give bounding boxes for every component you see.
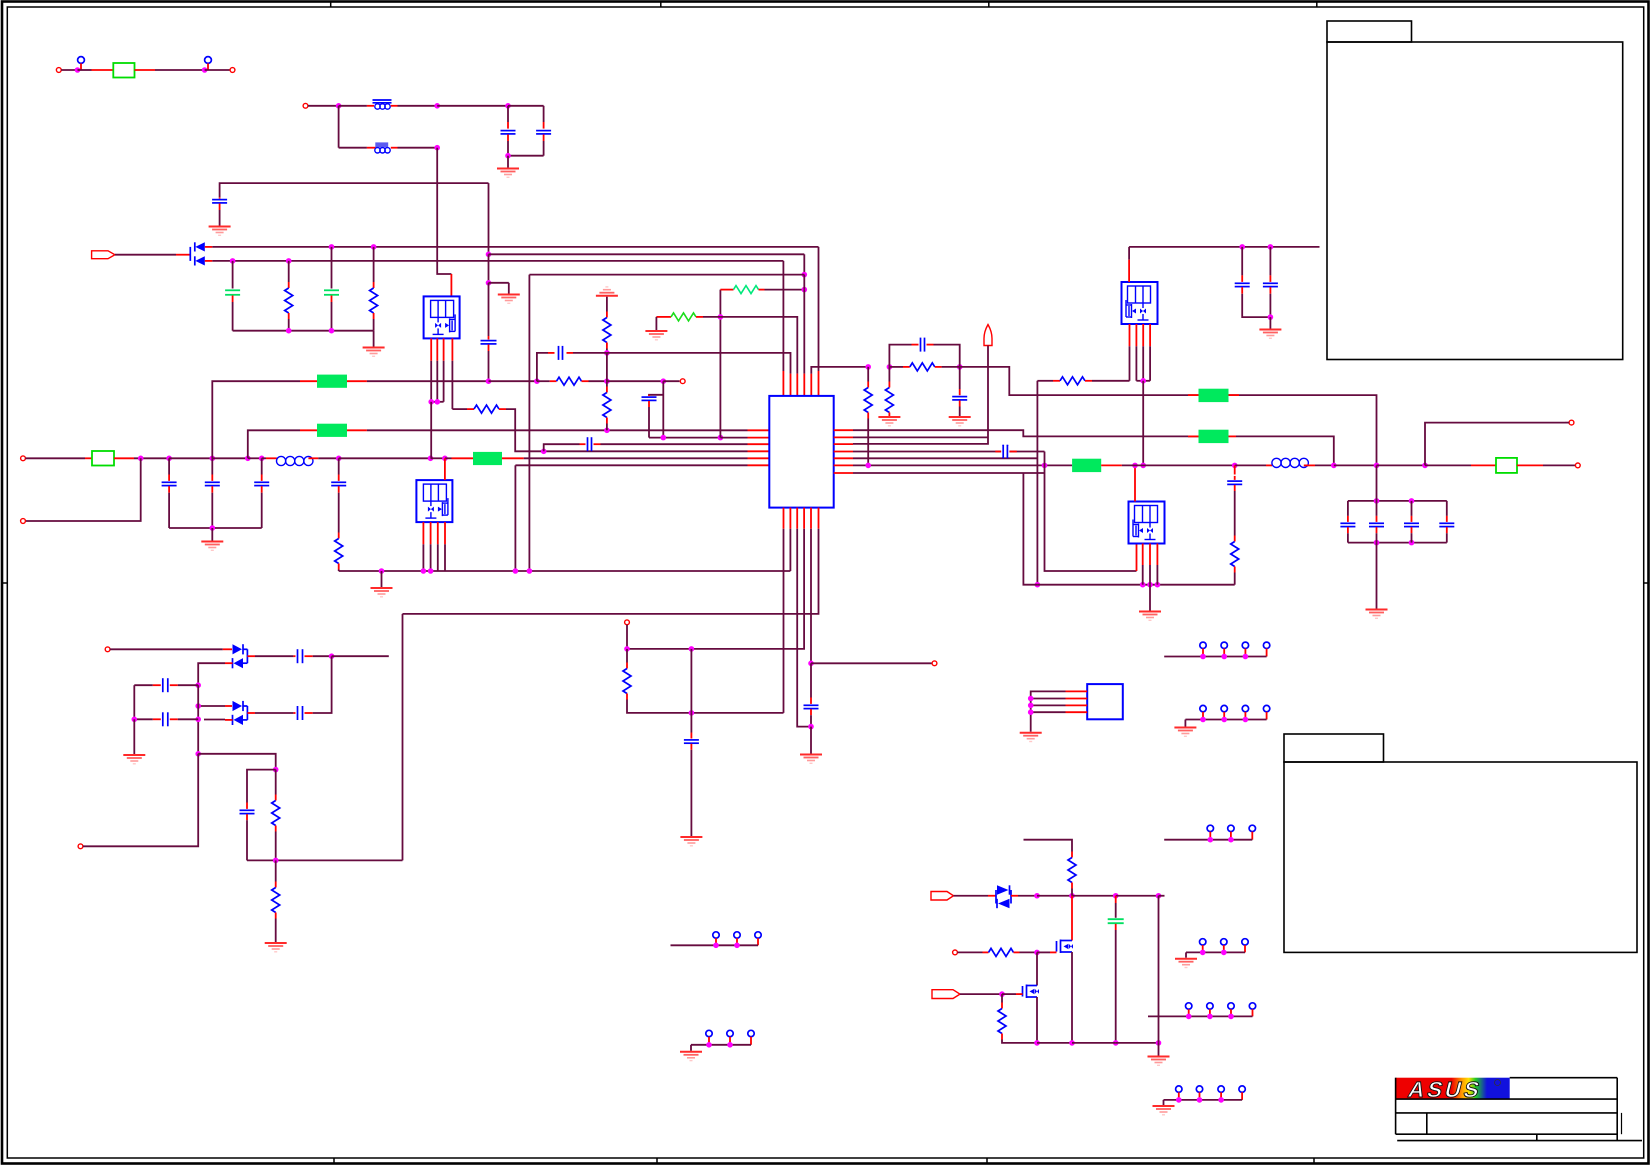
node junction <box>689 646 695 652</box>
pin1B wire <box>783 508 785 529</box>
wire to IC pin1L <box>347 429 367 431</box>
wire <box>1235 464 1266 466</box>
test point TP1 <box>78 57 85 64</box>
wire <box>954 895 989 897</box>
capacitor C18 <box>1241 247 1243 276</box>
wire phase vertical <box>1142 381 1144 466</box>
capacitor C17 to ground <box>959 367 961 389</box>
node junction <box>259 456 265 462</box>
ground <box>1184 720 1186 727</box>
node junction <box>329 328 335 334</box>
wire <box>212 457 248 459</box>
node junction <box>513 568 519 574</box>
capacitor C26 <box>134 684 153 686</box>
node junction <box>273 767 279 773</box>
node junction <box>957 364 963 370</box>
ground <box>498 294 520 296</box>
resistor R12 to ground <box>867 367 869 382</box>
wire <box>80 63 82 70</box>
header J7 <box>1186 1003 1192 1009</box>
connector terminal <box>105 647 110 652</box>
pin stub top <box>444 458 446 480</box>
node junction <box>1069 1040 1075 1046</box>
wire <box>391 105 398 107</box>
ground <box>1020 732 1042 734</box>
resistor R4 <box>557 377 582 385</box>
note box top-right body <box>1327 42 1623 360</box>
fuse F2 <box>92 451 114 466</box>
node junction <box>195 682 201 688</box>
node junction <box>808 724 814 730</box>
wire <box>332 655 389 657</box>
wire K2 row 2 <box>225 719 233 721</box>
connector terminal <box>21 519 26 524</box>
wire <box>1158 896 1160 1043</box>
border tick left middle <box>2 582 7 584</box>
wire <box>960 993 1002 995</box>
ground <box>1185 952 1187 957</box>
wire flame to pin3R <box>853 346 988 444</box>
wire <box>606 353 608 381</box>
ferrite bead FB1 <box>317 375 347 388</box>
resistor R9 (green) <box>655 316 657 318</box>
ferrite bead FB3 <box>473 452 502 465</box>
wire <box>537 353 548 381</box>
node junction <box>336 103 342 109</box>
node junction <box>428 399 434 405</box>
port flag EN2 <box>932 990 960 999</box>
node junction <box>604 428 610 434</box>
node junction <box>230 258 236 264</box>
node junction <box>1156 1040 1162 1046</box>
node junction <box>1422 463 1428 469</box>
wire <box>391 147 398 149</box>
wire <box>133 685 135 719</box>
wire phase feed <box>960 367 1377 466</box>
wire to source rail <box>338 570 340 572</box>
node junction <box>1069 893 1075 899</box>
note box bottom-right body <box>1284 762 1637 952</box>
border tick bottom 3 <box>986 1158 988 1164</box>
node junction <box>1155 582 1161 588</box>
ground <box>878 416 900 418</box>
pin4R wire <box>834 451 853 453</box>
node junction <box>486 280 492 286</box>
ground <box>949 416 971 418</box>
wire to ground <box>1376 543 1378 609</box>
wire <box>508 155 544 157</box>
ground <box>690 1045 692 1051</box>
pin2B source rail end <box>789 508 791 529</box>
wire <box>1377 464 1426 466</box>
wire <box>1037 1042 1072 1044</box>
pin stubs below Q1 <box>430 338 432 360</box>
border tick bottom 4 <box>1313 1158 1315 1164</box>
resistor R3 <box>338 533 340 539</box>
node junction <box>371 244 377 250</box>
node junction <box>245 456 251 462</box>
node junction <box>1374 463 1380 469</box>
node junction <box>329 653 335 659</box>
capacitor C25 <box>297 649 299 663</box>
green capacitor C30 <box>1115 896 1117 903</box>
node junction <box>1035 582 1041 588</box>
node junction <box>604 378 610 384</box>
capacitor C21 <box>1376 501 1378 516</box>
gate rail vertical <box>1036 381 1038 585</box>
mosfet block Q2 (lower-left) <box>416 480 452 522</box>
ground <box>1163 1100 1165 1105</box>
capacitor C7 <box>168 458 170 474</box>
node junction <box>1042 463 1048 469</box>
wire top branch to IC pin <box>212 246 818 248</box>
capacitor C9 <box>261 458 263 474</box>
node junction <box>434 145 440 151</box>
capacitor C23 <box>1446 501 1448 516</box>
node junction <box>1034 950 1040 956</box>
inductor L1 <box>277 456 286 465</box>
wire to RC branch <box>198 754 276 770</box>
node junction <box>865 463 871 469</box>
node junction <box>273 858 279 864</box>
capacitor C1 <box>507 106 509 122</box>
resistor R10 <box>626 649 628 663</box>
capacitor C4 <box>481 340 497 342</box>
node junction <box>421 568 427 574</box>
wire gate 2 <box>1002 993 1016 995</box>
mosfet Q6 <box>1022 986 1024 997</box>
wire pin4R chain <box>1045 452 1137 572</box>
node junction <box>1140 463 1146 469</box>
capacitor C28 <box>134 718 153 720</box>
connector terminal <box>680 379 685 384</box>
wire to terminal <box>811 662 932 664</box>
wire <box>508 105 544 107</box>
capacitor C2 <box>543 106 545 122</box>
capacitor C15 <box>810 663 812 697</box>
ground <box>363 347 385 349</box>
ground <box>655 317 657 330</box>
cap bypass loop C16 <box>889 345 911 367</box>
wire <box>339 457 431 459</box>
node junction <box>138 456 144 462</box>
capacitor C14 <box>684 739 699 741</box>
pin stubs below Q3 <box>1129 324 1131 346</box>
capacitor C27 <box>297 706 299 720</box>
node junction <box>1409 540 1415 546</box>
resistor R2 <box>373 247 375 282</box>
ground (inverted) <box>605 286 608 288</box>
capacitor C11 <box>587 437 589 451</box>
pin stubs below Q4 <box>1142 544 1144 566</box>
ground stub right <box>489 282 509 284</box>
node junction <box>1268 314 1274 320</box>
header J5 <box>1207 825 1213 831</box>
header J9 <box>713 932 719 938</box>
ground <box>1269 317 1271 328</box>
ferrite bead FB4 (right top) <box>1199 389 1229 402</box>
wire <box>537 380 550 382</box>
node junction <box>286 328 292 334</box>
green capacitor C5 <box>232 261 234 289</box>
node junction <box>195 751 201 757</box>
header J4 <box>1200 705 1206 711</box>
node junction <box>505 153 511 159</box>
connector terminal <box>303 103 308 108</box>
wire <box>347 380 367 382</box>
node junction <box>1140 378 1146 384</box>
node junction <box>1374 540 1380 546</box>
pin7R wire <box>834 472 853 474</box>
wire to pin4L of IC <box>506 409 748 451</box>
node junction <box>379 568 385 574</box>
node junction <box>1034 893 1040 899</box>
svg-text:ASUS: ASUS <box>1406 1077 1485 1102</box>
resistor R6 <box>603 318 611 343</box>
wire long vertical <box>488 183 490 254</box>
node junction <box>808 661 814 667</box>
flame symbol <box>984 325 992 346</box>
node junction <box>505 103 511 109</box>
connector terminal <box>932 661 937 666</box>
node junction <box>718 435 724 441</box>
resistor R16 <box>275 770 277 795</box>
node junction <box>1409 498 1415 504</box>
wire pin6R bus <box>834 464 853 466</box>
node junction <box>1239 244 1245 250</box>
pin1R step wire <box>834 429 853 431</box>
node junction <box>865 364 871 370</box>
header J6 <box>1200 939 1206 945</box>
ground <box>810 727 812 754</box>
inductor L2 <box>1272 458 1281 467</box>
dual diode D2 <box>233 644 243 654</box>
ground <box>507 156 509 168</box>
node junction <box>210 456 216 462</box>
ground <box>209 226 231 228</box>
wire cap leg <box>690 649 692 713</box>
wire <box>78 69 92 71</box>
node junction <box>802 272 808 278</box>
wire <box>83 754 198 847</box>
gate bus wire <box>431 401 443 403</box>
wire <box>262 457 266 459</box>
dual diode D4 <box>995 890 997 904</box>
node junction <box>1232 463 1238 469</box>
pin4B wire <box>803 508 805 529</box>
fuse F3 <box>1496 458 1517 473</box>
border tick top 1 <box>330 2 332 8</box>
wire <box>339 105 367 107</box>
wire pump cap2 <box>247 712 255 714</box>
node junction <box>661 378 667 384</box>
port flag EN1 <box>931 892 954 901</box>
wire top rail <box>1348 500 1447 502</box>
wire <box>308 105 339 107</box>
wire <box>114 457 134 459</box>
wire <box>626 625 628 649</box>
resistor R20 <box>1001 994 1003 1002</box>
node junction <box>527 568 533 574</box>
dual diode D3 <box>233 701 243 711</box>
wire bottom rail <box>1348 542 1447 544</box>
node junction <box>286 258 292 264</box>
node junction <box>329 244 335 250</box>
wire <box>437 105 508 107</box>
border tick right middle <box>1644 582 1649 584</box>
header J3 <box>1200 642 1206 648</box>
wire <box>248 457 262 459</box>
connector terminal <box>953 950 958 955</box>
note box bottom-right tab <box>1284 734 1384 762</box>
wire bead to bus <box>1236 436 1334 465</box>
resistor R8 (green) <box>720 289 733 291</box>
node junction <box>195 717 201 723</box>
wire <box>1037 895 1072 897</box>
wire <box>1011 895 1018 897</box>
wire pump input 2 <box>225 705 232 707</box>
node junction <box>887 364 893 370</box>
wire <box>373 331 375 347</box>
wire <box>115 254 176 256</box>
ferrite bead FB6 on bus <box>1072 459 1101 472</box>
connector terminal <box>78 844 83 849</box>
resistor R17 to ground <box>275 860 277 881</box>
capacitor C10 on bus <box>338 458 340 474</box>
resistor R18 <box>1068 858 1076 883</box>
wire <box>445 457 452 459</box>
mosfet Q5 <box>1071 896 1073 941</box>
node junction <box>166 456 172 462</box>
ground <box>1149 585 1151 611</box>
wire <box>431 457 445 459</box>
wire down to gate drive <box>437 148 451 274</box>
resistor R13 to ground <box>888 367 890 382</box>
wire gate <box>1037 951 1050 953</box>
mosfet block Q4 (lower-right, mirrored) <box>1129 502 1165 544</box>
node junction <box>1374 498 1380 504</box>
wire <box>25 457 85 459</box>
pin5R wire <box>834 457 853 459</box>
ferrite bead FB2 <box>317 424 347 437</box>
green capacitor C6 <box>331 247 333 289</box>
wire feedback loop vertical <box>402 614 404 861</box>
resistor R11 on wire <box>889 366 903 368</box>
capacitor C13 <box>642 396 657 398</box>
node junction <box>434 103 440 109</box>
resistor R1 <box>288 261 290 282</box>
wire <box>1334 464 1377 466</box>
resistor R19 <box>989 948 1014 956</box>
ground <box>1366 609 1388 611</box>
pin stub top <box>1134 465 1136 501</box>
connector J2 terminal <box>230 68 235 73</box>
wire branch to pin3L through cap <box>544 444 580 451</box>
node junction <box>624 646 630 652</box>
node junction <box>428 456 434 462</box>
wire to IC pin2L <box>649 437 720 439</box>
node junction <box>486 252 492 258</box>
capacitor C8 <box>211 458 213 474</box>
wire <box>1425 464 1471 466</box>
wire tap to upper terminal <box>1425 423 1565 466</box>
node junction <box>75 67 81 73</box>
header J10 <box>706 1030 712 1036</box>
node junction <box>336 456 342 462</box>
connector VIN terminal <box>21 456 26 461</box>
wire <box>607 380 663 382</box>
wire <box>1517 464 1543 466</box>
wire <box>61 69 77 71</box>
resistor R7 <box>606 381 608 386</box>
capacitor C29 <box>240 809 255 811</box>
resistor R5 <box>474 405 499 413</box>
node junction <box>132 717 138 723</box>
capacitor C22 <box>1411 501 1413 516</box>
capacitor C31 on pin4R wire <box>995 451 1001 453</box>
wire <box>1304 464 1315 466</box>
wire bus under Q3 <box>1136 380 1150 382</box>
pin3B wire <box>796 508 798 529</box>
border tick bottom 2 <box>656 1158 658 1164</box>
wire pump cap1 <box>247 655 255 657</box>
wire <box>502 457 524 459</box>
wire lower branch <box>338 106 340 148</box>
node junction <box>718 314 724 320</box>
wire <box>489 380 537 382</box>
node junction <box>428 568 434 574</box>
node junction <box>1113 1040 1119 1046</box>
dual diode D1 <box>189 247 191 261</box>
wire pin7R rail <box>1023 473 1037 585</box>
wire <box>1072 895 1116 897</box>
title block lines <box>1510 1077 1618 1079</box>
connector terminal <box>1569 420 1574 425</box>
wire <box>220 183 489 197</box>
wire cap bottom rail <box>169 527 262 529</box>
node junction <box>534 378 540 384</box>
note box top-right tab <box>1327 21 1412 42</box>
transformer T1 top winding <box>373 99 392 101</box>
wire <box>1376 465 1378 501</box>
title block ASUS logo <box>1396 1078 1510 1099</box>
ferrite bead FB5 (right mid) <box>1199 430 1229 443</box>
wire <box>1072 1042 1116 1044</box>
wire <box>489 253 805 255</box>
wire <box>308 457 318 459</box>
wire <box>1116 895 1159 897</box>
node junction <box>802 287 808 293</box>
wire <box>207 63 209 70</box>
node junction <box>1113 893 1119 899</box>
wire <box>529 274 804 276</box>
node junction <box>1147 582 1153 588</box>
ground <box>381 571 383 587</box>
wire <box>135 69 156 71</box>
wire pin4T <box>803 275 805 290</box>
wire cap branch <box>247 770 276 803</box>
node junction <box>1156 893 1162 899</box>
node junction <box>210 525 216 531</box>
pin stub top <box>1128 247 1130 260</box>
connector VOUT terminal <box>1575 463 1580 468</box>
wire cap output to IC pin2T <box>607 353 791 374</box>
wire bead2 feed <box>248 430 300 458</box>
node junction <box>1268 244 1274 250</box>
border tick bottom 1 <box>333 1158 335 1164</box>
node junction <box>486 378 492 384</box>
wire bead1 feed <box>212 381 300 458</box>
